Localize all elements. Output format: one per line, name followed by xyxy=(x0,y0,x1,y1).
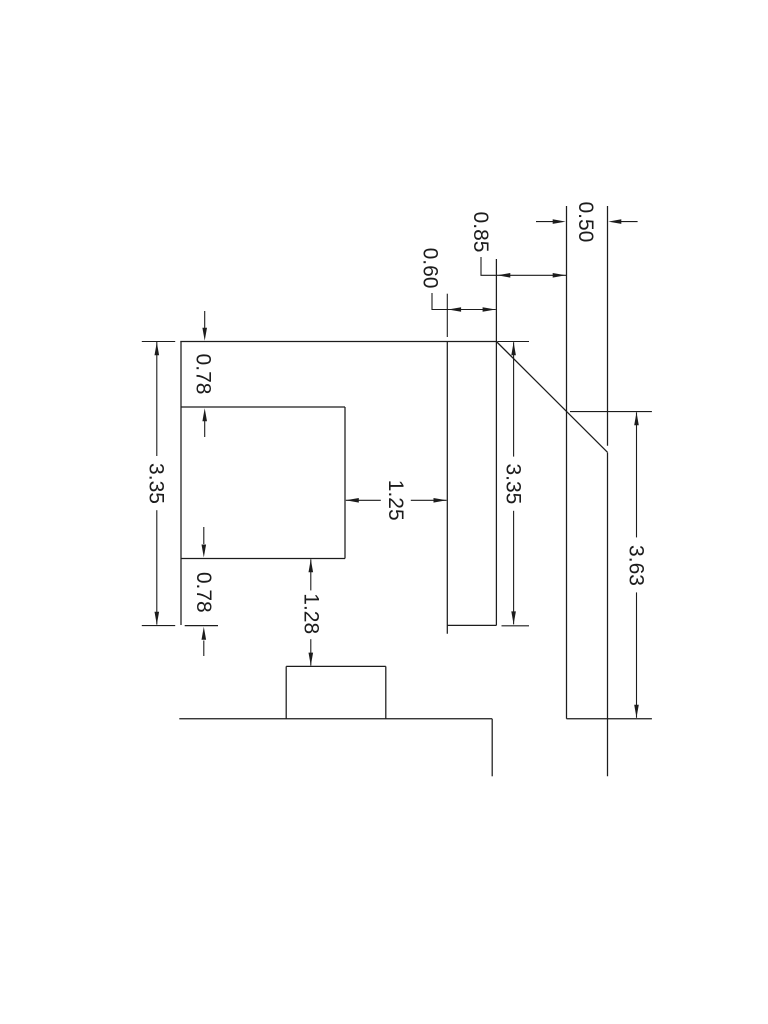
dim 3.63 top arrowhead xyxy=(634,412,639,425)
dim 3.35 right top arrowhead xyxy=(511,342,516,355)
chamfer diagonal xyxy=(496,342,607,453)
dim 1.28 top arrow shaft xyxy=(310,559,312,590)
svg-text:3.63: 3.63 xyxy=(624,545,647,586)
svg-text:3.35: 3.35 xyxy=(501,463,524,504)
dim 0.50 left arrow shaft xyxy=(536,221,554,223)
dim 1.25 right arrowhead xyxy=(434,498,447,503)
square right edge xyxy=(344,407,346,559)
dim 3.35 right line lower segment xyxy=(513,511,515,625)
square top edge xyxy=(181,406,345,408)
dim 0.78 top lower arrowhead xyxy=(202,408,207,421)
svg-text:0.60: 0.60 xyxy=(419,248,442,289)
dim 1.25 line right segment xyxy=(411,499,447,501)
dim 3.35 left top arrowhead xyxy=(155,342,160,355)
bottom base corner vertical xyxy=(491,719,493,777)
right wall right extension line upper xyxy=(607,206,609,446)
dim 0.85 right arrowhead xyxy=(553,273,566,278)
dim 3.63 top extension tick xyxy=(570,411,652,413)
dim 0.60 leader and line xyxy=(432,293,496,310)
dim 0.60 left arrowhead xyxy=(448,307,461,312)
svg-text:1.28: 1.28 xyxy=(299,593,322,634)
dim 0.85 left arrowhead xyxy=(497,273,510,278)
top edge line xyxy=(180,341,496,343)
svg-text:0.78: 0.78 xyxy=(192,354,215,395)
svg-text:0.50: 0.50 xyxy=(574,201,597,242)
svg-text:3.35: 3.35 xyxy=(144,463,167,504)
slot left edge xyxy=(446,342,448,634)
dim 3.35 right bottom arrowhead xyxy=(511,611,516,624)
right wall left line xyxy=(566,206,568,719)
boss rect left edge xyxy=(285,666,287,718)
dim 0.78 bottom upper arrow shaft xyxy=(203,527,205,544)
dim 3.35 left bottom arrowhead xyxy=(155,612,160,625)
svg-text:0.78: 0.78 xyxy=(192,572,215,613)
dim 0.78 bottom lower arrow shaft xyxy=(203,641,205,657)
right wall bottom edge xyxy=(567,718,652,720)
dim 0.78 bottom lower arrowhead xyxy=(202,627,207,640)
boss rect top edge xyxy=(286,665,386,667)
dim 3.63 line lower segment xyxy=(636,592,638,717)
dim 3.35 right bottom extension tick xyxy=(502,625,530,627)
dim 3.35 right top extension tick xyxy=(498,341,530,343)
dim 3.35 left bottom extension tick xyxy=(142,625,175,627)
boss rect right edge xyxy=(385,666,387,718)
dim 0.78 top lower arrow shaft xyxy=(204,421,206,437)
slot bottom edge xyxy=(447,624,496,626)
dim 1.28 bottom arrow shaft xyxy=(310,639,312,665)
dim 3.35 left top extension tick xyxy=(142,341,175,343)
bottom base line xyxy=(179,718,492,720)
dim 0.78 top upper arrow shaft xyxy=(204,311,206,328)
dim 0.60 right arrowhead xyxy=(483,307,496,312)
bottom-left edge piece xyxy=(185,625,218,627)
right wall right edge lower xyxy=(607,453,609,777)
dim 0.78 bottom upper arrowhead xyxy=(202,545,207,558)
dim 3.35 right line upper segment xyxy=(513,342,515,456)
dim 0.50 right arrowhead xyxy=(608,219,621,224)
dim 3.35 left line upper segment xyxy=(156,342,158,456)
dim 1.28 bottom arrowhead xyxy=(309,653,314,666)
square bottom edge xyxy=(181,558,345,560)
slot right edge xyxy=(495,259,497,625)
svg-text:1.25: 1.25 xyxy=(384,480,407,521)
dim 3.63 bottom arrowhead xyxy=(634,705,639,718)
dim 0.50 right arrow shaft xyxy=(620,221,638,223)
dim 1.25 line left segment xyxy=(346,499,381,501)
dim 0.78 top upper arrowhead xyxy=(202,328,207,341)
dim 1.28 top arrowhead xyxy=(309,559,314,572)
dim 0.50 left arrowhead xyxy=(553,219,566,224)
svg-text:0.85: 0.85 xyxy=(469,212,492,253)
dim 3.35 left line lower segment xyxy=(156,510,158,624)
dim 1.25 left arrowhead xyxy=(346,498,359,503)
left edge line xyxy=(180,342,182,626)
dim 0.85 line xyxy=(496,274,566,276)
dim 3.63 line upper segment xyxy=(636,412,638,537)
dim 0.85 leader drop xyxy=(481,257,496,275)
dim 0.60 extension line xyxy=(446,294,448,337)
